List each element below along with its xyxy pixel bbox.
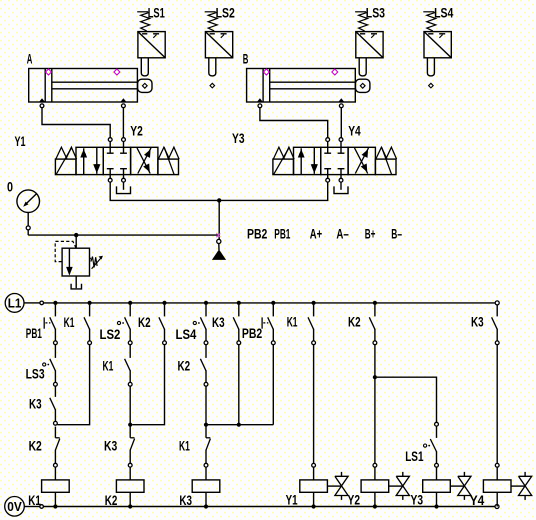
svg-text:K2: K2 — [348, 315, 361, 330]
svg-text:K2: K2 — [105, 493, 118, 508]
limit switch contact LS2 — [117, 305, 132, 345]
svg-text:Y2: Y2 — [130, 124, 143, 139]
exhaust symbol — [117, 182, 131, 194]
svg-text:LS1: LS1 — [148, 5, 165, 20]
svg-text:K2: K2 — [29, 439, 42, 454]
svg-text:K1: K1 — [287, 315, 298, 330]
relay contact K3 (rung1 row3) — [50, 386, 58, 425]
regulator pilot (dashed) — [55, 241, 76, 261]
svg-text:Y4: Y4 — [348, 124, 361, 139]
wire: rung1 junction to NC — [54, 427, 56, 438]
label K3 — [471, 315, 484, 330]
svg-text:K3: K3 — [212, 315, 225, 330]
solenoid Y4 (right pilot) — [375, 147, 396, 174]
label LS4 — [434, 5, 454, 20]
wire: rung6 down — [238, 345, 240, 425]
svg-text:Y1: Y1 — [15, 134, 26, 149]
exhaust symbol — [334, 182, 348, 194]
wire: branch to LS1 — [377, 377, 437, 422]
svg-text:K1: K1 — [28, 493, 41, 508]
label LS3 — [366, 5, 386, 20]
relay contact K3 (output) — [492, 305, 500, 345]
svg-text:0V: 0V — [7, 499, 22, 514]
label Y3 — [411, 493, 424, 508]
svg-text:K3: K3 — [471, 315, 484, 330]
label LS2 — [100, 327, 121, 342]
svg-text:K1: K1 — [103, 358, 114, 373]
tube: cylinder B right port to valve2 port — [340, 108, 342, 138]
label LS4 — [176, 327, 197, 342]
label A — [27, 51, 33, 66]
svg-text:LS2: LS2 — [100, 327, 121, 342]
svg-text:B+: B+ — [365, 226, 376, 241]
svg-text:K3: K3 — [29, 396, 42, 411]
junction on L1 rail at x=273.3 — [271, 301, 275, 305]
svg-text:A–: A– — [336, 226, 349, 241]
label K2 — [348, 315, 361, 330]
junction on 0V rail under K2 — [128, 504, 132, 508]
label Y1 — [286, 493, 298, 508]
tube: cylinder A right port to valve1 port — [122, 108, 124, 138]
junctions on 0V rail (outputs) — [312, 504, 439, 508]
NC relay contact K1 (interlock) — [204, 438, 210, 467]
limit switch contact LS1 — [424, 422, 439, 463]
pushbutton contact PB1 — [44, 305, 57, 345]
relay coil K3 — [192, 467, 220, 506]
cylinder B rod cam — [356, 79, 370, 92]
svg-text:K3: K3 — [104, 439, 118, 454]
svg-text:LS4: LS4 — [434, 5, 454, 20]
wire: rung8 down to Y1 — [313, 345, 315, 464]
valve body (3 position boxes) — [294, 147, 376, 174]
svg-text:K1: K1 — [179, 439, 190, 454]
label B — [243, 51, 249, 66]
junction on L1 rail at x=238.8 — [237, 301, 241, 305]
junction on L1 rail at x=55.4 — [53, 301, 57, 305]
junction rung9 to LS1 branch — [373, 375, 377, 379]
svg-text:LS1: LS1 — [405, 449, 424, 464]
label PB2 — [242, 326, 262, 341]
valve right position crossed arrows — [355, 148, 369, 174]
tube: cylinder B left port to valve2 port — [260, 108, 328, 138]
wire: rung7 (PB2) down — [272, 345, 274, 425]
label PB1 — [26, 326, 42, 341]
spring (return) of LS1 — [137, 12, 150, 31]
junction on 0V rail under K1 — [53, 504, 57, 508]
valve indicator of Y2 — [389, 472, 410, 500]
svg-text:K2: K2 — [178, 358, 191, 373]
svg-text:LS3: LS3 — [26, 367, 45, 382]
limit switch valve LS2 body — [205, 32, 232, 76]
junction on L1 rail at x=313.6 — [312, 301, 316, 305]
junction on supply manifold — [217, 198, 221, 202]
svg-text:A+: A+ — [310, 226, 322, 241]
junction rung5/rung6 — [204, 423, 241, 427]
label K2 — [138, 315, 151, 330]
svg-text:Y3: Y3 — [232, 131, 245, 146]
NC relay contact K3 (interlock) — [128, 438, 134, 467]
svg-text:Y3: Y3 — [411, 493, 424, 508]
tube: cylinder A left port to valve1 port — [42, 108, 110, 138]
svg-text:L1: L1 — [8, 296, 22, 311]
relay coil K2 — [116, 467, 144, 506]
wire: L1 rail — [44, 302, 495, 304]
cylinder A rod cam — [138, 79, 152, 92]
wire: 0V rail — [43, 506, 494, 508]
junction on L1 rail at x=130.2 — [128, 301, 132, 305]
valve indicator of Y4 — [511, 472, 532, 500]
solenoid Y3 (left pilot) — [273, 147, 294, 174]
valve top ports — [326, 138, 343, 148]
svg-text:PB1: PB1 — [26, 326, 42, 341]
solenoid coil Y4 — [483, 463, 511, 506]
relay coil K1 — [42, 467, 70, 506]
relay contact K2 (seq) — [200, 345, 208, 386]
text row PB2 PB1 A+ A- B+ B- — [247, 226, 402, 241]
L1 rail end terminal — [495, 301, 499, 305]
relay contact K2 (hold) — [159, 305, 167, 345]
svg-text:LS3: LS3 — [366, 5, 386, 20]
NC relay contact K2 (interlock) — [54, 438, 60, 467]
svg-text:K3: K3 — [179, 493, 192, 508]
0V rail end terminal — [495, 505, 499, 509]
wire: rung3 to NC — [129, 386, 131, 438]
valve centre position (blocked ports) — [324, 147, 344, 174]
junction on 0V rail under K3 — [204, 504, 208, 508]
valve left position arrows — [80, 148, 100, 175]
solenoid coil Y2 — [361, 463, 389, 506]
junction rung3/rung4 — [128, 423, 132, 427]
label K2 — [178, 358, 191, 373]
pressure regulator — [62, 248, 89, 289]
label Y3 — [232, 131, 245, 146]
junction on L1 rail at x=206.0 — [204, 301, 208, 305]
marker at supply junction — [216, 233, 220, 237]
svg-text:A: A — [27, 51, 33, 66]
spring (return) of LS3 — [355, 12, 368, 31]
svg-text:B–: B– — [391, 226, 402, 241]
regulator spring and adjust arrow — [90, 256, 103, 269]
svg-text:0: 0 — [7, 180, 13, 195]
solenoid Y2 (right pilot) — [158, 147, 179, 174]
relay contact K1 (hold) — [84, 305, 92, 345]
label Y2 — [130, 124, 143, 139]
svg-text:LS4: LS4 — [176, 327, 197, 342]
label 0 (gauge) — [7, 180, 13, 195]
label K1 — [64, 315, 75, 330]
limit switch valve LS4 body — [424, 32, 451, 76]
wire: K1 hold branch (rung2 down to rung1) — [57, 345, 89, 425]
solenoid coil Y1 — [300, 463, 328, 506]
relay contact K2 (output) — [369, 305, 377, 345]
limit switch contact LS3 — [43, 345, 58, 386]
svg-text:LS2: LS2 — [216, 5, 235, 20]
svg-text:B: B — [243, 51, 249, 66]
tube: gauge to supply line — [28, 230, 217, 235]
power rail 0V source — [5, 497, 44, 517]
valve indicator of Y3 — [450, 472, 471, 500]
relay contact K1 (seq) — [125, 345, 133, 386]
valve body (3 position boxes) — [76, 147, 158, 174]
label K2 (NC) — [29, 439, 42, 454]
relay contact K3 (hold) — [233, 305, 241, 345]
wire: rung9 down to Y2 — [374, 345, 376, 464]
label coil K3 — [179, 493, 192, 508]
tube: supply drop — [218, 200, 220, 239]
svg-text:K1: K1 — [64, 315, 75, 330]
valve left position arrows — [298, 148, 318, 175]
tube: supply manifold — [110, 182, 328, 200]
limit switch valve LS1 body — [138, 32, 165, 76]
label LS1 — [148, 5, 165, 20]
cylinder A (double-acting) — [29, 69, 138, 108]
label K3 (NC) — [104, 439, 118, 454]
junction on L1 rail at x=164.5 — [162, 301, 166, 305]
label Y4 — [470, 493, 485, 508]
wire: K3 hold + PB2 branch (horizontal) — [206, 424, 273, 426]
tube: to regulator — [75, 235, 77, 248]
label LS3 — [26, 367, 45, 382]
pressure gauge — [17, 190, 40, 230]
label K3 — [212, 315, 225, 330]
power rail L1 source — [5, 294, 43, 313]
wire: rung5 to NC — [205, 386, 207, 438]
junction on L1 rail at x=89.6 — [88, 301, 92, 305]
spring (return) of LS4 — [423, 12, 436, 31]
valve top ports — [108, 138, 125, 148]
solenoid Y1 (left pilot) — [55, 147, 76, 174]
label Y1 — [15, 134, 26, 149]
relay contact K1 (output) — [308, 305, 316, 345]
label coil K1 — [28, 493, 41, 508]
valve indicator of Y1 — [327, 472, 348, 500]
spring (return) of LS2 — [205, 12, 218, 31]
valve bottom ports — [108, 175, 125, 183]
label K1 (NC) — [179, 439, 190, 454]
svg-text:Y1: Y1 — [286, 493, 298, 508]
svg-text:K2: K2 — [138, 315, 151, 330]
label LS1 — [405, 449, 424, 464]
cam marker below LS2 — [210, 83, 215, 88]
svg-text:PB2: PB2 — [247, 226, 267, 241]
limit switch contact LS4 — [193, 305, 208, 345]
wire: rung10 down to Y4 — [496, 345, 498, 464]
solenoid coil Y3 — [423, 463, 451, 506]
cam marker below LS4 — [429, 83, 434, 88]
valve centre position (blocked ports) — [107, 147, 127, 174]
pushbutton contact PB2 — [262, 305, 275, 345]
label coil K2 — [105, 493, 118, 508]
svg-text:Y2: Y2 — [348, 493, 361, 508]
svg-text:Y4: Y4 — [470, 493, 485, 508]
svg-text:PB2: PB2 — [242, 326, 262, 341]
label Y4 — [348, 124, 361, 139]
svg-text:PB1: PB1 — [274, 226, 290, 241]
air supply source — [212, 239, 226, 260]
wire: K2 hold branch (rung4 down to rung3) — [132, 345, 164, 425]
label LS2 — [216, 5, 235, 20]
junction on L1 rail at x=374.9 — [373, 301, 377, 305]
junction to regulator — [74, 233, 78, 237]
label Y2 — [348, 493, 361, 508]
label K1 — [287, 315, 298, 330]
valve bottom ports — [326, 175, 343, 183]
label K3 — [29, 396, 42, 411]
cylinder B (double-acting) — [247, 69, 356, 108]
valve right position crossed arrows — [137, 148, 151, 174]
limit switch valve LS3 body — [356, 32, 383, 76]
label K1 — [103, 358, 114, 373]
